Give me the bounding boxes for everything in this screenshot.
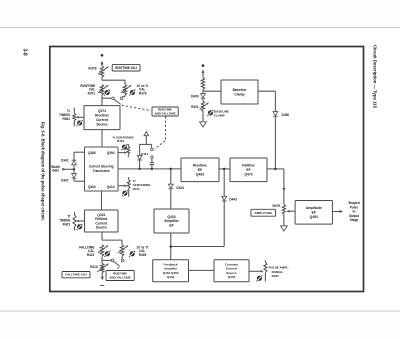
RISETIME AND FALLTIME label lower (106, 271, 134, 281)
wire D443 branch down (223, 169, 225, 197)
negative supply bar (100, 285, 104, 287)
svg-text:R371: R371 (88, 91, 96, 95)
switch contact right (risetime) (120, 97, 123, 100)
potentiometer R411 Tf CENTERING (118, 185, 126, 187)
wire falltime EF to node (267, 168, 275, 170)
svg-text:D414: D414 (141, 152, 149, 156)
switch contact left (falltime) (111, 259, 114, 262)
diode D347 (72, 174, 77, 178)
svg-text:R361: R361 (62, 117, 70, 121)
svg-text:R431: R431 (272, 274, 280, 278)
potentiometer R361 Tr TIMING (73, 108, 75, 114)
svg-text:D347: D347 (61, 179, 69, 183)
block Feedback Amplifier (153, 260, 189, 282)
diode D480 (273, 112, 278, 116)
svg-text:Source: Source (96, 122, 107, 126)
svg-text:R422: R422 (87, 253, 95, 257)
svg-text:Circuit Description — Type 1: Circuit Description — Type 115 (372, 45, 377, 109)
wire supply arrow (202, 71, 204, 77)
node falltime EF output (274, 168, 277, 171)
potentiometer R418 FALLTIME ADJ (101, 263, 104, 272)
resistor R378 (variable) (100, 66, 103, 77)
svg-text:Current: Current (96, 118, 109, 122)
svg-text:Q463: Q463 (196, 172, 204, 176)
output arrow shaped pulse (332, 211, 340, 213)
wire Q424 down to falltime cal branch (101, 232, 103, 240)
svg-text:Q454: Q454 (228, 275, 236, 279)
node feedback junction (170, 245, 173, 248)
wire D414 top bar (140, 143, 152, 145)
FALLTIME ADJ front panel label (62, 272, 90, 278)
wire right branch down (124, 80, 126, 84)
switch contact lower (151, 156, 154, 159)
svg-text:3-8: 3-8 (21, 49, 27, 56)
wire jog to left contact falltime (102, 259, 111, 261)
switch contact upper (tr mult cap) (151, 144, 153, 148)
block Risetime EF Q463 (181, 158, 219, 182)
supply dot baseline chain (202, 64, 205, 67)
wire D347 to box (73, 179, 75, 182)
potentiometer R479 AMPLITUDE (282, 204, 285, 214)
switch contact left (risetime) (112, 97, 115, 100)
block Amplitude EF Q493 (295, 201, 332, 225)
potentiometer R431 PULSE AMPL RANGE (264, 260, 266, 262)
switch arm risetime (114, 100, 121, 105)
resistor R376 10 ns Tr CAL (variable) (123, 85, 126, 95)
wire branch top horizontal (102, 79, 125, 81)
wire D423 branch down (170, 169, 172, 184)
block Q374 Risetime Current Source (84, 106, 120, 130)
svg-text:Fig. 3-6. Block diagram of the: Fig. 3-6. Block diagram of the pulse sha… (40, 122, 45, 221)
svg-text:D443: D443 (229, 198, 237, 202)
wire supply to D414 tee (145, 136, 147, 145)
svg-text:Q493: Q493 (310, 215, 318, 219)
wire up to D341 (73, 165, 75, 169)
svg-text:Q394: Q394 (107, 151, 115, 155)
wire to negative supply (101, 273, 103, 278)
svg-text:D480: D480 (282, 113, 290, 117)
RISETIME AND FALLTIME switch label (152, 107, 178, 116)
svg-text:AMPLITUDE: AMPLITUDE (254, 211, 272, 215)
wire right falltime branch to contact (121, 256, 123, 258)
wire D341 to box (73, 152, 75, 160)
svg-text:D341: D341 (61, 158, 69, 162)
wire bus to amplitude pot (275, 168, 284, 170)
node D443 branch (223, 168, 226, 171)
resistor baseline feed (201, 77, 204, 89)
svg-text:R479: R479 (272, 204, 280, 208)
svg-text:Q414: Q414 (107, 185, 115, 189)
wire left leg (139, 144, 141, 155)
svg-text:R401: R401 (117, 139, 125, 143)
svg-text:R418: R418 (90, 265, 98, 269)
ground amplitude pot (281, 226, 288, 231)
wire falltime left down (101, 256, 103, 263)
diode D423 (168, 184, 173, 188)
wire R378 to branch node (101, 77, 103, 80)
wire Q374 to steering box (101, 130, 103, 147)
ground baseline chain (202, 111, 204, 122)
svg-text:Q374: Q374 (98, 109, 106, 113)
block Q424 Falltime Current Source (85, 210, 119, 232)
svg-text:R401: R401 (191, 105, 199, 109)
svg-text:Clamp: Clamp (234, 92, 244, 96)
AMPLITUDE front panel label (251, 209, 276, 216)
switch contact right (falltime) (121, 259, 124, 262)
potentiometer R401 BASELINE CLAMP adj (202, 99, 204, 102)
svg-text:R426: R426 (139, 253, 147, 257)
RISETIME ADJ front-panel label (112, 65, 140, 71)
capacitor in D414 leg (151, 158, 153, 162)
wire clamp output right (258, 90, 275, 92)
node bus to D423 (170, 168, 173, 171)
potentiometer R421 Tf TIMING (74, 212, 76, 215)
svg-text:RISETIME ADJ: RISETIME ADJ (115, 66, 137, 70)
wire clamp output down (274, 91, 276, 169)
supply dot node (101, 54, 104, 57)
block Q433 Amplifier EF (154, 209, 189, 233)
input arrow from width gate (62, 168, 74, 170)
wire jog to left switch contact (102, 97, 111, 99)
svg-text:Baseline: Baseline (233, 88, 247, 92)
svg-text:Stage: Stage (350, 218, 359, 222)
wire R371 down to Q374 box (101, 95, 103, 106)
resistor R422 FALLTIME CAL (variable) (100, 245, 103, 257)
wire D423 to Q433 box (170, 189, 172, 209)
block Falltime EF Q473 (230, 158, 267, 182)
wire to pulse ampl range pot (249, 270, 262, 272)
wire feedback to constant current source (189, 269, 215, 271)
wire supply to R378 (101, 62, 103, 66)
switch arm falltime (114, 262, 120, 267)
svg-text:R421: R421 (63, 222, 71, 226)
dashed link to risetime-falltime label (116, 267, 118, 270)
resistor R371 RISETIME CAL (variable) (100, 85, 103, 95)
svg-text:EF: EF (169, 224, 173, 228)
node width gate junction (73, 168, 76, 171)
wire Q433 down (170, 233, 172, 260)
svg-text:FALLTIME ADJ: FALLTIME ADJ (65, 273, 87, 277)
potentiometer R401 Tr CENTERING (118, 152, 126, 154)
wire D443 down and left to feedback node (223, 201, 225, 246)
dashed mechanical link to RISETIME AND FALLTIME (122, 105, 151, 110)
svg-text:R378: R378 (88, 67, 96, 71)
svg-text:R411: R411 (133, 187, 140, 191)
wire steering box down to Q424 (101, 191, 103, 210)
svg-text:Risetime: Risetime (95, 114, 109, 118)
resistor R426 10 ns Tf CAL (variable) (120, 245, 123, 257)
svg-text:CLAMP: CLAMP (214, 113, 225, 117)
block Baseline Clamp (221, 80, 258, 104)
svg-text:AND FALLTIME: AND FALLTIME (154, 111, 175, 115)
diode D341 (72, 161, 77, 165)
svg-text:Gate: Gate (52, 169, 59, 173)
svg-text:Q473: Q473 (244, 172, 252, 176)
supply arrow above D414 (144, 132, 149, 136)
svg-text:Source: Source (96, 225, 107, 229)
wire down to D347 (73, 169, 75, 173)
node to baseline clamp box (202, 89, 204, 93)
svg-text:AND FALLTIME: AND FALLTIME (109, 275, 130, 279)
svg-text:Q404: Q404 (88, 185, 96, 189)
svg-text:D400: D400 (191, 94, 199, 98)
wire R376 to right switch contact (124, 95, 126, 96)
diode D400 (201, 94, 206, 98)
svg-text:Q442: Q442 (167, 275, 175, 279)
wire main bus to risetime EF (118, 168, 181, 170)
svg-text:Transistors: Transistors (93, 169, 110, 173)
diode D414 (137, 155, 142, 159)
wire risetime EF to falltime EF (219, 168, 230, 170)
svg-text:R376: R376 (139, 91, 147, 95)
block Current Steering Transistors Q384 Q394 Q404 Q414 (85, 147, 119, 191)
wire D414 to bus (139, 160, 141, 169)
svg-text:D423: D423 (176, 186, 184, 190)
diode D443 (222, 196, 227, 200)
dashed link label to cap switch (165, 116, 167, 140)
block Constant Current Source Q454 (214, 260, 249, 282)
svg-text:Q384: Q384 (88, 151, 96, 155)
diagram border frame (50, 47, 364, 292)
